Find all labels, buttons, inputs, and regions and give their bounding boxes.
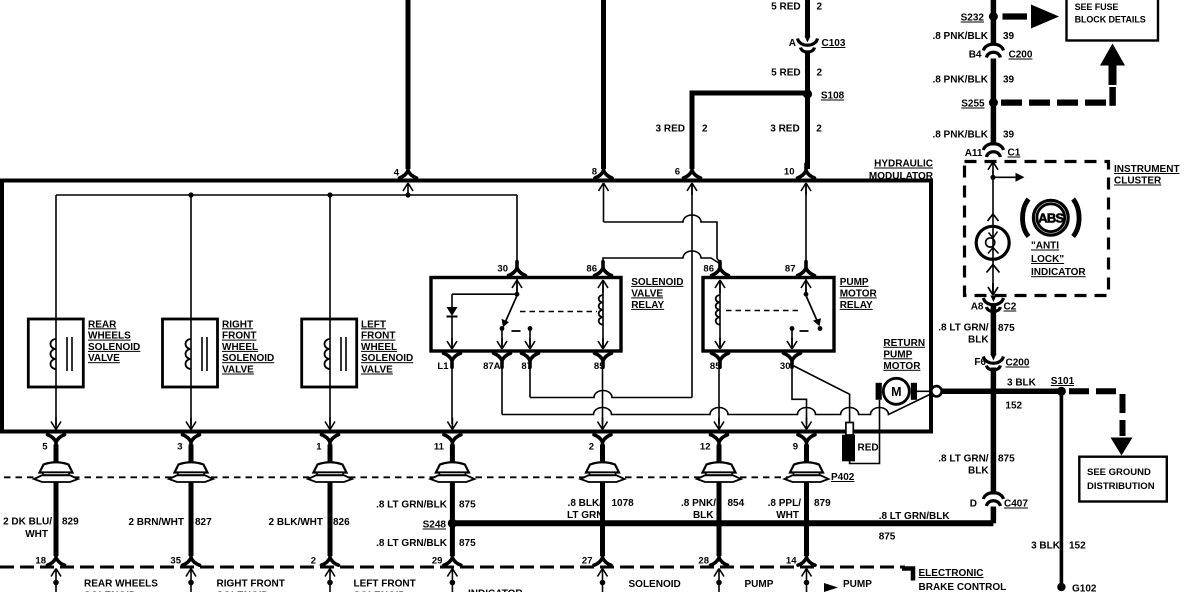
svg-text:39: 39 bbox=[1003, 130, 1015, 141]
svg-text:ABS: ABS bbox=[1038, 211, 1064, 226]
wire to relay1 pin 30 bbox=[516, 195, 518, 264]
svg-text:.8 LT GRN/: .8 LT GRN/ bbox=[938, 323, 989, 334]
grommet connector pin 2 bbox=[581, 462, 625, 482]
relay1 contacts bbox=[500, 326, 505, 331]
svg-text:875: 875 bbox=[879, 532, 896, 543]
svg-text:F6: F6 bbox=[974, 357, 986, 368]
svg-text:REAR: REAR bbox=[88, 319, 117, 330]
diode CR1 bbox=[452, 293, 517, 295]
svg-text:VALVE: VALVE bbox=[361, 365, 393, 376]
svg-text:MOTOR: MOTOR bbox=[840, 288, 878, 299]
svg-text:C103: C103 bbox=[822, 38, 846, 49]
svg-text:RIGHT: RIGHT bbox=[222, 319, 253, 330]
svg-text:3 BLK: 3 BLK bbox=[1007, 378, 1037, 389]
wire .8 LT GRN/BLK 875 bus bbox=[452, 520, 993, 526]
relay1 pin 86 bbox=[586, 262, 611, 294]
EBCM pin 29 bbox=[432, 551, 461, 592]
svg-text:6: 6 bbox=[675, 167, 680, 178]
relay2 bottom pins 85 30 bbox=[710, 338, 729, 372]
left front wheel solenoid valve bbox=[302, 195, 414, 430]
svg-text:1078: 1078 bbox=[612, 498, 635, 509]
wire .8 BLK/LT GRN 1078 bbox=[567, 498, 634, 521]
svg-text:11: 11 bbox=[434, 442, 445, 453]
svg-text:3 BLK: 3 BLK bbox=[1031, 541, 1061, 552]
svg-text:18: 18 bbox=[35, 556, 46, 567]
wire pin 6 to relay1 87 bbox=[687, 183, 697, 195]
svg-text:WHT: WHT bbox=[25, 529, 48, 540]
svg-text:MODULATOR: MODULATOR bbox=[869, 171, 934, 182]
svg-text:827: 827 bbox=[195, 517, 212, 528]
svg-text:C200: C200 bbox=[1006, 358, 1030, 369]
EBCM pin 14 bbox=[786, 551, 815, 592]
connector A11 C1 bbox=[965, 144, 1021, 159]
wire cluster internal bbox=[988, 162, 998, 174]
svg-text:854: 854 bbox=[728, 498, 745, 509]
svg-text:BLK: BLK bbox=[968, 466, 989, 477]
svg-text:SOLENOID: SOLENOID bbox=[222, 353, 274, 364]
svg-text:WHEEL: WHEEL bbox=[222, 342, 258, 353]
relay1 switch arm bbox=[504, 296, 517, 326]
anti lock indicator label bbox=[1031, 241, 1086, 279]
see fuse block details box bbox=[1067, 0, 1159, 41]
ground G102 bbox=[1057, 583, 1097, 592]
instrument cluster box bbox=[965, 162, 1109, 296]
svg-text:INDICATOR: INDICATOR bbox=[1031, 267, 1086, 278]
grommet connector pin 1 bbox=[308, 462, 352, 482]
svg-text:2: 2 bbox=[817, 68, 823, 79]
svg-text:2: 2 bbox=[817, 2, 823, 13]
svg-text:152: 152 bbox=[1069, 541, 1086, 552]
wire relay2 85 to pin 12 bbox=[718, 366, 720, 424]
rear wheels solenoid valve bbox=[28, 195, 140, 430]
hydraulic modulator box bbox=[2, 181, 931, 432]
svg-text:5: 5 bbox=[42, 442, 48, 453]
relay2 armature link bbox=[726, 310, 801, 312]
relay1 bottom pins L1 87A 87 85 bbox=[437, 338, 460, 372]
svg-text:S232: S232 bbox=[961, 13, 985, 24]
svg-text:LEFT: LEFT bbox=[361, 319, 386, 330]
fusible link RED bbox=[842, 423, 879, 462]
right front wheel solenoid valve bbox=[163, 195, 275, 430]
svg-text:30: 30 bbox=[497, 264, 508, 275]
svg-text:L1: L1 bbox=[437, 361, 449, 372]
EBCM pin 28 bbox=[698, 551, 727, 592]
EBCM pin 35 bbox=[170, 551, 199, 592]
connector pin 3 bbox=[177, 435, 199, 556]
svg-text:S101: S101 bbox=[1051, 376, 1075, 387]
grommet connector pin 9 bbox=[785, 462, 829, 482]
svg-text:4: 4 bbox=[394, 168, 400, 179]
svg-text:INSTRUMENT: INSTRUMENT bbox=[1114, 164, 1180, 175]
wire .8 PNK/BLK 854 bbox=[681, 498, 745, 521]
svg-text:86: 86 bbox=[703, 264, 714, 275]
svg-text:VALVE: VALVE bbox=[222, 365, 254, 376]
svg-text:WHT: WHT bbox=[776, 510, 799, 521]
connector pin 4 bbox=[394, 164, 417, 179]
ABS symbol bbox=[1023, 199, 1080, 237]
svg-text:SEE GROUND: SEE GROUND bbox=[1087, 467, 1151, 478]
EBCM label PUMP bbox=[745, 579, 774, 590]
wire 3 BLK 152 to G102 bbox=[1060, 393, 1064, 586]
dashed link S255 to fuse block bbox=[1001, 99, 1106, 105]
grommet connector pin 11 bbox=[430, 462, 474, 482]
svg-text:C2: C2 bbox=[1004, 302, 1017, 313]
svg-text:S255: S255 bbox=[961, 99, 985, 110]
dashed link to fuse block bbox=[1003, 13, 1028, 19]
connector pin 6 bbox=[675, 164, 701, 178]
wire 5 RED feed to pin 8 bbox=[601, 0, 606, 169]
connector pin 2 bbox=[589, 435, 611, 556]
svg-text:VALVE: VALVE bbox=[88, 353, 120, 364]
svg-text:826: 826 bbox=[333, 517, 350, 528]
splice S101 bbox=[1051, 376, 1075, 396]
connector B4 C200 bbox=[969, 44, 1033, 60]
wire motor feed bbox=[850, 400, 880, 464]
wire 3 RED elbow to pin 6 bbox=[692, 93, 808, 169]
svg-text:5 RED: 5 RED bbox=[771, 2, 800, 13]
wire relay1 85 to pin 2 bbox=[602, 366, 604, 424]
wire 2 BLK/WHT 826 bbox=[269, 517, 351, 528]
svg-text:A8: A8 bbox=[971, 302, 984, 313]
wire .8 PPL/WHT 879 bbox=[768, 498, 831, 521]
dashed link to ground distribution bbox=[1069, 388, 1123, 394]
EBCM pin 18 bbox=[35, 551, 64, 592]
svg-text:.8 LT GRN/BLK: .8 LT GRN/BLK bbox=[376, 538, 448, 549]
EBCM label RIGHT FRONT bbox=[217, 579, 285, 592]
svg-text:2 BRN/WHT: 2 BRN/WHT bbox=[128, 517, 184, 528]
svg-text:87: 87 bbox=[785, 264, 796, 275]
svg-text:9: 9 bbox=[793, 442, 798, 453]
svg-text:875: 875 bbox=[459, 538, 476, 549]
svg-text:SOLENOID: SOLENOID bbox=[361, 353, 413, 364]
grommet connector pin 5 bbox=[34, 462, 78, 482]
svg-text:WHEEL: WHEEL bbox=[361, 342, 397, 353]
svg-text:B4: B4 bbox=[969, 50, 982, 61]
svg-text:PUMP: PUMP bbox=[745, 579, 774, 590]
svg-text:879: 879 bbox=[814, 498, 831, 509]
electronic brake control module dashed edge bbox=[0, 566, 905, 569]
svg-text:S108: S108 bbox=[821, 91, 845, 102]
svg-text:P402: P402 bbox=[831, 472, 855, 483]
svg-text:85: 85 bbox=[594, 361, 605, 372]
EBCM pin 2 bbox=[311, 551, 339, 592]
wire 5 RED / label bbox=[771, 2, 822, 13]
connector pin 9 bbox=[793, 435, 815, 556]
wire pin 4 entry bbox=[403, 183, 413, 195]
wire relay1 86 to relay2 86 bbox=[603, 251, 720, 264]
svg-text:G102: G102 bbox=[1072, 584, 1097, 592]
svg-text:.8 LT GRN/: .8 LT GRN/ bbox=[938, 454, 989, 465]
svg-text:2: 2 bbox=[816, 124, 822, 135]
svg-text:FRONT: FRONT bbox=[361, 331, 395, 342]
connector A C103 bbox=[789, 36, 846, 52]
node splice bbox=[188, 192, 193, 197]
svg-text:35: 35 bbox=[170, 556, 181, 567]
svg-text:VALVE: VALVE bbox=[631, 288, 663, 299]
wire relay2 30 to pin 9 bbox=[792, 366, 807, 424]
wire 5 RED feed to pin 4 bbox=[406, 0, 411, 169]
ground terminal circle bbox=[931, 386, 941, 396]
relay1 coil bbox=[602, 280, 604, 348]
svg-text:C1: C1 bbox=[1008, 148, 1021, 159]
svg-text:2 DK BLU/: 2 DK BLU/ bbox=[3, 517, 52, 528]
connector pin 11 bbox=[434, 435, 461, 556]
svg-text:WHEELS: WHEELS bbox=[88, 331, 131, 342]
svg-text:SOLENOID: SOLENOID bbox=[629, 579, 681, 590]
svg-text:RELAY: RELAY bbox=[631, 300, 664, 311]
svg-text:A11: A11 bbox=[965, 148, 983, 159]
svg-text:BLK: BLK bbox=[693, 510, 714, 521]
svg-text:C407: C407 bbox=[1004, 499, 1028, 510]
wire motor brush to ground circle bbox=[917, 390, 932, 392]
connector A8 C2 bbox=[971, 296, 1017, 313]
svg-text:10: 10 bbox=[784, 167, 795, 178]
wire label .8 LT GRN/BLK 875 bbox=[938, 323, 1015, 346]
hydraulic modulator label bbox=[869, 159, 934, 183]
svg-text:PUMP: PUMP bbox=[840, 277, 869, 288]
relay2 switch arm bbox=[806, 296, 819, 325]
svg-text:DISTRIBUTION: DISTRIBUTION bbox=[1087, 481, 1155, 492]
relay2 pin 87 bbox=[785, 262, 815, 294]
svg-text:2: 2 bbox=[702, 124, 708, 135]
relay2 contacts bbox=[790, 326, 795, 331]
electronic brake control label bbox=[919, 568, 1007, 592]
wire relay1 L1 to pin 11 bbox=[451, 366, 453, 424]
svg-text:D: D bbox=[970, 499, 977, 510]
connector pin 8 bbox=[592, 164, 612, 178]
return pump motor label bbox=[883, 338, 925, 372]
svg-text:.8 PNK/: .8 PNK/ bbox=[681, 498, 716, 509]
wire 5 RED below C103 bbox=[771, 51, 822, 170]
svg-text:30: 30 bbox=[780, 361, 791, 372]
svg-text:3 RED: 3 RED bbox=[770, 124, 799, 135]
svg-text:86: 86 bbox=[586, 264, 597, 275]
svg-text:28: 28 bbox=[698, 556, 709, 567]
svg-text:3: 3 bbox=[177, 442, 182, 453]
svg-text:.8 PNK/BLK: .8 PNK/BLK bbox=[932, 130, 988, 141]
svg-text:MOTOR: MOTOR bbox=[883, 361, 921, 372]
motor M1 bbox=[876, 378, 917, 404]
svg-text:14: 14 bbox=[786, 556, 797, 567]
svg-text:.8 PPL/: .8 PPL/ bbox=[768, 498, 802, 509]
svg-text:.8 LT GRN/BLK: .8 LT GRN/BLK bbox=[376, 500, 448, 511]
svg-text:RIGHT FRONT: RIGHT FRONT bbox=[217, 579, 285, 590]
EBCM label LEFT FRONT bbox=[354, 579, 416, 592]
svg-text:829: 829 bbox=[62, 517, 79, 528]
svg-text:PUMP: PUMP bbox=[843, 579, 872, 590]
connector pin 10 bbox=[784, 164, 815, 178]
wire relay2 30 to fusible link bbox=[790, 364, 850, 423]
connector pin 5 bbox=[42, 435, 64, 556]
svg-text:S248: S248 bbox=[423, 520, 447, 531]
wire 2 BRN/WHT 827 bbox=[128, 517, 212, 528]
svg-text:.8 BLK/: .8 BLK/ bbox=[568, 498, 603, 509]
svg-text:27: 27 bbox=[582, 556, 593, 567]
ABS warning lamp bbox=[976, 226, 1009, 259]
svg-text:1: 1 bbox=[316, 442, 322, 453]
svg-text:39: 39 bbox=[1003, 75, 1015, 86]
relay1 common node bbox=[516, 278, 518, 293]
relay1 pin 30 bbox=[497, 262, 525, 294]
wire .8 PNK/BLK feed bbox=[991, 0, 997, 46]
svg-text:LOCK": LOCK" bbox=[1031, 254, 1064, 265]
svg-text:87A: 87A bbox=[483, 361, 501, 372]
EBCM pin 27 bbox=[582, 551, 611, 592]
arrow continuation near pin 14 bbox=[824, 583, 838, 592]
relay K1 solenoid valve relay bbox=[431, 277, 683, 351]
grommet connector pin 12 bbox=[697, 462, 741, 482]
svg-text:875: 875 bbox=[459, 500, 476, 511]
svg-text:SOLENOID: SOLENOID bbox=[631, 277, 683, 288]
svg-text:8: 8 bbox=[592, 167, 597, 178]
svg-text:M: M bbox=[891, 385, 901, 399]
svg-text:ELECTRONIC: ELECTRONIC bbox=[919, 568, 984, 579]
svg-text:152: 152 bbox=[1005, 401, 1022, 412]
wire pin 8 to relay coils 86 bbox=[599, 183, 609, 195]
svg-text:A: A bbox=[789, 38, 796, 49]
wire 2 DK BLU/WHT 829 bbox=[3, 517, 79, 541]
grommet connector pin 3 bbox=[169, 462, 213, 482]
svg-text:FRONT: FRONT bbox=[222, 331, 256, 342]
splice S232 bbox=[961, 12, 998, 24]
svg-text:RETURN: RETURN bbox=[883, 338, 925, 349]
EBCM label PUMP bbox=[843, 579, 872, 590]
svg-text:875: 875 bbox=[998, 323, 1015, 334]
splice S248 bbox=[423, 519, 457, 531]
svg-text:2: 2 bbox=[589, 442, 594, 453]
connector pin 1 bbox=[316, 435, 338, 556]
svg-text:.8 LT GRN/BLK: .8 LT GRN/BLK bbox=[879, 511, 951, 522]
svg-text:12: 12 bbox=[700, 442, 711, 453]
svg-text:RELAY: RELAY bbox=[840, 300, 873, 311]
svg-text:REAR WHEELS: REAR WHEELS bbox=[84, 579, 158, 590]
relay K2 pump motor relay bbox=[703, 277, 878, 351]
svg-text:39: 39 bbox=[1003, 31, 1015, 42]
bulkhead dashed line bbox=[4, 476, 788, 478]
svg-text:.8 PNK/BLK: .8 PNK/BLK bbox=[932, 31, 988, 42]
svg-text:PUMP: PUMP bbox=[883, 349, 912, 360]
svg-text:LT GRN: LT GRN bbox=[567, 510, 603, 521]
svg-text:INDICATOR: INDICATOR bbox=[468, 589, 523, 592]
wire pin 10 to relay2 87 bbox=[801, 183, 811, 195]
svg-text:BLOCK DETAILS: BLOCK DETAILS bbox=[1075, 15, 1146, 25]
svg-text:C200: C200 bbox=[1009, 50, 1033, 61]
wire relay1 87A to motor return bbox=[501, 366, 503, 415]
relay2 pin 86 bbox=[703, 262, 728, 294]
EBCM label INDICATOR bbox=[468, 589, 523, 592]
svg-text:875: 875 bbox=[998, 454, 1015, 465]
splice S108 bbox=[803, 89, 845, 101]
wire .8 LT GRN/BLK 875 bbox=[376, 500, 476, 511]
wire 3 BLK 152 ground bbox=[942, 389, 1062, 395]
svg-text:29: 29 bbox=[432, 556, 443, 567]
EBCM label SOLENOID bbox=[629, 579, 681, 590]
wire solenoid feed bus bbox=[56, 194, 517, 196]
svg-text:SEE FUSE: SEE FUSE bbox=[1075, 2, 1119, 12]
svg-text:5 RED: 5 RED bbox=[771, 68, 800, 79]
EBCM label REAR WHEELS bbox=[84, 579, 158, 592]
svg-text:3 RED: 3 RED bbox=[656, 124, 685, 135]
relay2 coil bbox=[719, 280, 721, 348]
svg-text:SOLENOID: SOLENOID bbox=[88, 342, 140, 353]
wire label .8 PNK/BLK 39 bbox=[932, 31, 1014, 42]
see ground distribution box bbox=[1079, 457, 1167, 502]
svg-text:2: 2 bbox=[311, 556, 316, 567]
connector pin 12 bbox=[700, 435, 728, 556]
connector D C407 bbox=[970, 493, 1029, 510]
svg-text:LEFT FRONT: LEFT FRONT bbox=[354, 579, 416, 590]
connector F6 C200 bbox=[974, 354, 1030, 370]
svg-text:BLK: BLK bbox=[968, 335, 989, 346]
svg-text:2 BLK/WHT: 2 BLK/WHT bbox=[269, 517, 323, 528]
svg-text:.8 PNK/BLK: .8 PNK/BLK bbox=[932, 75, 988, 86]
relay2 common node bbox=[805, 278, 807, 293]
svg-text:HYDRAULIC: HYDRAULIC bbox=[874, 159, 933, 170]
wire branch arrow bbox=[993, 176, 1016, 178]
svg-text:"ANTI: "ANTI bbox=[1031, 241, 1059, 252]
svg-text:CLUSTER: CLUSTER bbox=[1114, 176, 1162, 187]
svg-text:BRAKE CONTROL: BRAKE CONTROL bbox=[919, 582, 1007, 592]
svg-text:RED: RED bbox=[858, 443, 879, 454]
splice S255 bbox=[961, 98, 998, 109]
relay1 armature link bbox=[520, 311, 597, 313]
